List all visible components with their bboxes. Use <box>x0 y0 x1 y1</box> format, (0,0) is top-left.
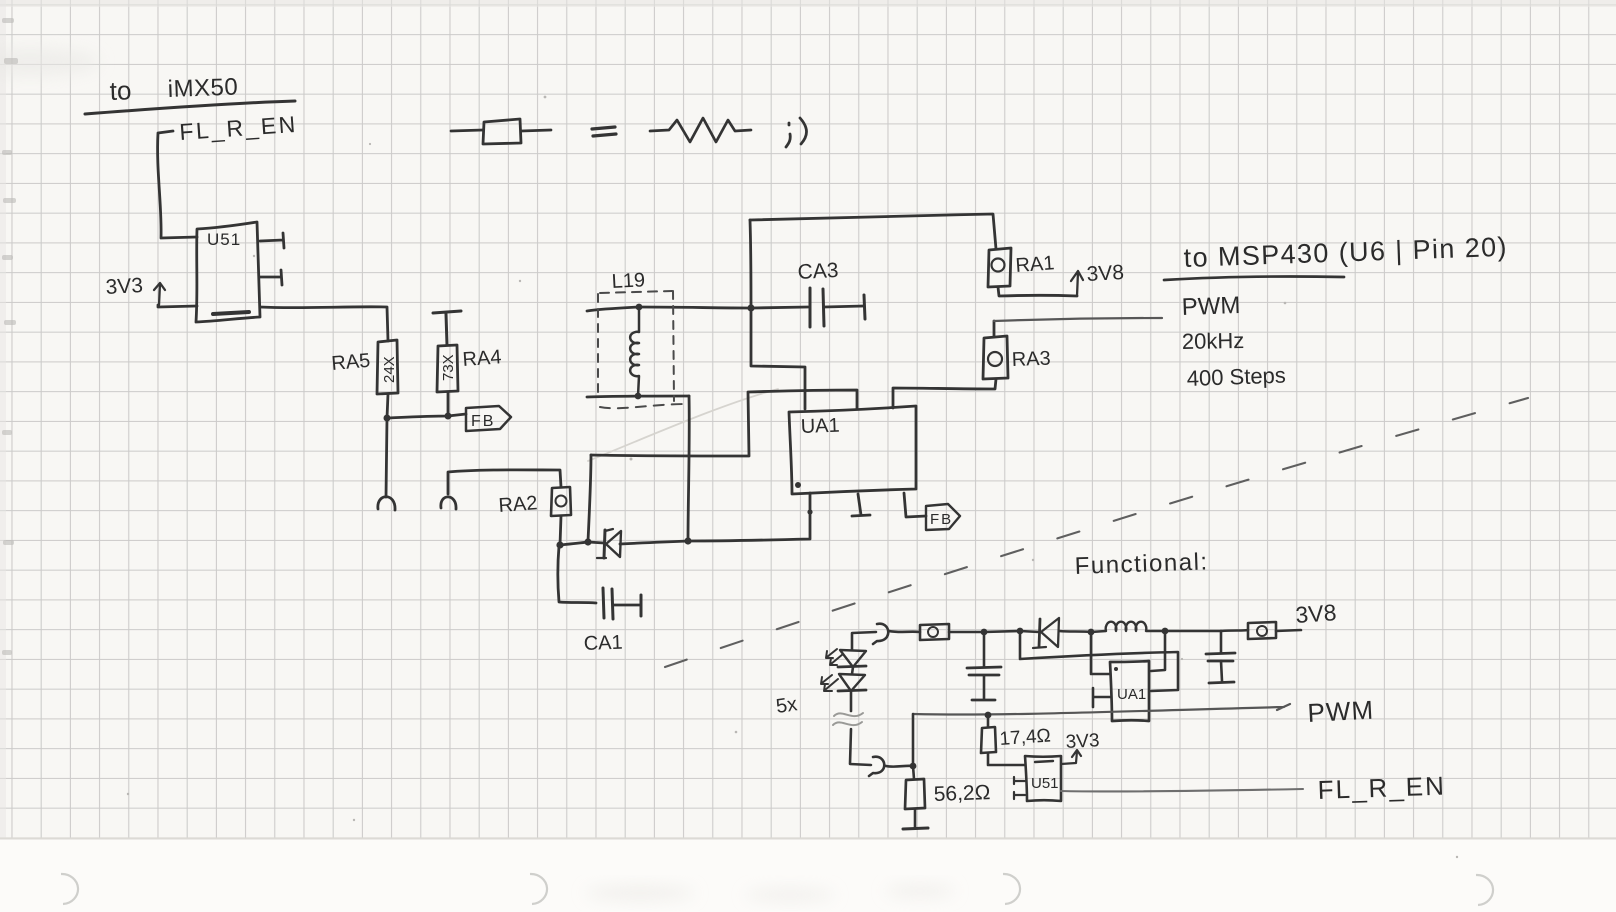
wire rail to diode <box>588 542 604 543</box>
svg-text:FB: FB <box>930 511 953 528</box>
svg-text:UA1: UA1 <box>1117 686 1146 703</box>
ferrite box FR1 <box>920 624 949 640</box>
svg-text:400 Steps: 400 Steps <box>1186 363 1286 391</box>
wire PWM to MSP <box>994 318 1162 321</box>
node junction C <box>556 541 563 548</box>
node junction D <box>584 538 591 545</box>
UA1f left T pin <box>1093 688 1110 707</box>
wire rail to UA1 pin <box>688 493 810 541</box>
title underline (to iMX50) <box>85 101 295 114</box>
svg-text:73X: 73X <box>440 354 457 381</box>
node junction F4 <box>1162 628 1169 635</box>
UA1 pin mid <box>852 494 870 516</box>
MSP430 underline <box>1164 276 1344 280</box>
svg-text:RA5: RA5 <box>331 350 372 375</box>
scan tone: top-left smudge <box>0 48 100 76</box>
svg-text:iMX50: iMX50 <box>167 74 238 103</box>
legend equals <box>592 127 616 136</box>
resistor RA3 <box>983 336 1008 379</box>
IC UA1 <box>789 406 916 494</box>
svg-text:U51: U51 <box>1031 775 1059 792</box>
wire staple1 <box>591 390 857 456</box>
resistor RA5 <box>377 340 398 394</box>
svg-text:56,2Ω: 56,2Ω <box>933 781 990 806</box>
wire F3 to UA1f <box>1091 632 1110 674</box>
node junction H <box>747 304 754 311</box>
connector hook 4 <box>869 757 884 776</box>
scan tone: left edge band <box>0 0 6 838</box>
net flag FB1 <box>466 406 511 431</box>
binding hole 2 <box>530 874 547 904</box>
capacitor CA3 <box>751 288 865 327</box>
capacitor Cf2 <box>1206 631 1235 683</box>
wire FR1 to node <box>949 631 984 634</box>
3V8 arrow <box>1071 271 1083 296</box>
resistor RA1 <box>988 248 1011 287</box>
wire mid vertical <box>588 455 591 541</box>
wire RA1 bottom to 3V8 <box>998 287 1077 296</box>
wire PWM corner down <box>912 714 915 766</box>
binding hole 1 <box>61 874 78 904</box>
capacitor CA1 <box>558 546 641 619</box>
svg-text:to: to <box>109 75 132 106</box>
inductor Lf coil <box>1091 622 1165 632</box>
svg-text:5x: 5x <box>775 693 799 718</box>
svg-text:17,4Ω: 17,4Ω <box>999 725 1052 750</box>
wire FR2 to 3V8 <box>1276 630 1301 631</box>
svg-text:CA1: CA1 <box>583 632 623 655</box>
svg-text:24X: 24X <box>381 356 398 383</box>
svg-text:3V3: 3V3 <box>105 274 144 299</box>
resistor 56,2 <box>903 766 928 829</box>
node junction F1 <box>981 629 988 636</box>
IC U51 <box>196 222 260 322</box>
node junction G <box>635 393 642 400</box>
resistor RA4 <box>437 345 458 392</box>
diode D2 <box>1020 618 1091 648</box>
wire bottom rail left <box>560 542 588 545</box>
wire L19 rail left <box>587 307 639 311</box>
node junction A <box>384 415 391 422</box>
svg-text:L19: L19 <box>611 269 645 293</box>
svg-text:U51: U51 <box>207 230 241 249</box>
L19 dashed box <box>598 291 688 408</box>
legend wink <box>786 118 807 147</box>
wire LED string bottom <box>850 729 871 765</box>
svg-text:FB: FB <box>471 413 495 430</box>
inductor L19 coil <box>630 309 639 396</box>
svg-text:PWM: PWM <box>1307 695 1375 728</box>
legend zigzag resistor <box>650 118 751 142</box>
node junction B <box>445 413 452 420</box>
connector hook 2 <box>441 497 456 509</box>
wire node F1 to diode <box>984 631 1020 632</box>
faint pencil arc <box>588 389 778 461</box>
wire staple2 RA3 to UA1 <box>893 379 996 408</box>
dashed separator line <box>665 398 1528 667</box>
wire RA2 down <box>560 516 561 545</box>
wire U51f to 3V3 arrow <box>1061 750 1081 764</box>
wire hook4 to node F6 <box>886 764 913 768</box>
wire FL_R_EN long <box>1061 789 1303 791</box>
wire L19 bottom rail <box>587 396 689 397</box>
svg-text:CA3: CA3 <box>797 259 839 284</box>
wire diode to node E <box>620 541 688 544</box>
svg-text:RA2: RA2 <box>498 492 538 517</box>
U51 pin right 1 <box>260 233 284 248</box>
resistor RA2 <box>551 487 571 516</box>
net flag FB2 <box>926 504 960 530</box>
wire LED top <box>852 632 876 649</box>
svg-text:UA1: UA1 <box>800 415 840 438</box>
wire bypass loop <box>1020 631 1178 691</box>
svg-text:Functional:: Functional: <box>1074 548 1209 580</box>
wire cap2 to FR2 <box>1221 630 1248 631</box>
node junction F5 <box>985 712 992 719</box>
wire hook3 to box <box>889 631 920 632</box>
LED1 <box>826 649 866 667</box>
U51 pin right 2 <box>260 270 282 285</box>
wire F4 to UA1f <box>1151 631 1165 671</box>
wire top rail horizontal <box>750 214 996 249</box>
left margin scan marks <box>2 18 18 655</box>
node junction E <box>684 537 691 544</box>
binding hole 4 <box>1476 875 1493 905</box>
svg-text:RA4: RA4 <box>462 346 502 371</box>
scan tone: top edge band <box>0 0 1616 7</box>
wire U51 to RA5 <box>260 307 388 341</box>
wire node A down <box>386 418 387 497</box>
wire PWM long <box>913 704 1290 715</box>
ferrite box FR2 <box>1248 622 1276 639</box>
U51f left pin ticks <box>1014 777 1025 799</box>
wire RA4 to node <box>447 392 450 416</box>
solder blob <box>807 509 812 514</box>
node junction F6 <box>910 763 917 770</box>
IC U51 functional <box>1025 756 1061 801</box>
svg-text:PWM: PWM <box>1181 292 1241 321</box>
wire FL_R_EN stub <box>158 131 197 238</box>
wire L19 out vertical <box>688 396 689 541</box>
wire LED2 down <box>850 691 853 711</box>
legend box resistor <box>451 130 551 131</box>
svg-text:3V8: 3V8 <box>1086 261 1125 286</box>
wire node A to FB1 <box>387 414 466 418</box>
paper bottom edge <box>0 838 1616 840</box>
wire RA3 top <box>993 321 996 337</box>
continuation squiggle <box>833 713 863 725</box>
resistor RA4 T-bar <box>433 311 461 345</box>
svg-text:RA1: RA1 <box>1015 252 1055 277</box>
3V3 arrow <box>154 283 165 305</box>
capacitor Cf1 <box>967 632 1001 700</box>
LED2 <box>821 667 866 691</box>
wire 3V3 to U51 <box>158 305 197 307</box>
wire hook2 to RA2 <box>448 470 561 494</box>
wire F4 to cap2 <box>1165 630 1221 633</box>
diode D1 <box>597 529 621 558</box>
resistor 17,4 <box>981 715 1025 765</box>
svg-text:20kHz: 20kHz <box>1182 328 1245 354</box>
connector hook 1 <box>378 497 395 510</box>
node junction F3 <box>1088 629 1095 636</box>
wire top rail vertical <box>750 220 805 409</box>
svg-text:3V8: 3V8 <box>1295 599 1338 628</box>
svg-text:FL_R_EN: FL_R_EN <box>1317 771 1446 805</box>
node junction F2 <box>1017 628 1024 635</box>
bleed-through smudges <box>585 885 955 901</box>
wire L19 rail right <box>639 307 751 308</box>
IC UA1 functional <box>1110 661 1149 721</box>
svg-text:3V3: 3V3 <box>1065 730 1100 753</box>
UA1 pin right wire to FB2 <box>904 493 926 517</box>
paper speckles <box>127 96 1458 859</box>
binding hole 3 <box>1003 874 1020 904</box>
connector hook 3 <box>873 624 888 644</box>
svg-text:RA3: RA3 <box>1011 348 1051 371</box>
node junction F <box>636 304 643 311</box>
wire RA5 to node <box>387 394 388 418</box>
